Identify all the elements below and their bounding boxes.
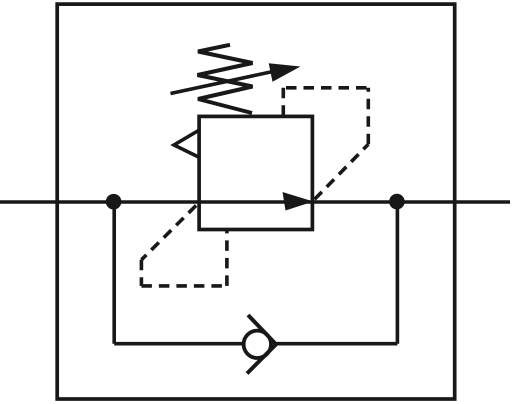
adjustment arrowhead bbox=[269, 63, 301, 82]
node junction right (filled) bbox=[389, 194, 405, 210]
pilot line top horizontal bbox=[283, 86, 368, 90]
pilot line rise onto valve bottom bbox=[225, 230, 229, 286]
pilot line (dashed) outlet sensing diagonal bbox=[312, 144, 368, 201]
check valve CV1 ball circle bbox=[244, 331, 271, 358]
pilot line lower horizontal bbox=[141, 284, 227, 288]
relief vent triangle on valve left bbox=[174, 131, 199, 158]
pilot line (dashed) inlet-side diagonal lower-left bbox=[141, 203, 199, 260]
spring (adjustable) zigzag bbox=[198, 45, 253, 113]
enclosure frame (component boundary) bbox=[57, 4, 455, 399]
wire: bypass bottom left segment bbox=[114, 342, 242, 346]
pilot line lower-left vertical bbox=[140, 260, 144, 286]
wire: bypass bottom right segment bbox=[277, 342, 398, 346]
wire: right bypass riser bbox=[396, 202, 400, 344]
check valve CV1 seat bbox=[247, 315, 276, 374]
pilot line riser right bbox=[366, 88, 370, 145]
wire: main flow line P1 to P2 bbox=[0, 200, 510, 204]
node junction left (filled) bbox=[106, 194, 122, 210]
adjustment arrow shaft bbox=[171, 70, 282, 94]
valve body square U1 bbox=[199, 116, 312, 229]
flow direction arrowhead inside valve bbox=[283, 192, 314, 211]
pilot line drop onto valve top bbox=[281, 88, 285, 117]
wire: left bypass drop bbox=[112, 202, 116, 344]
